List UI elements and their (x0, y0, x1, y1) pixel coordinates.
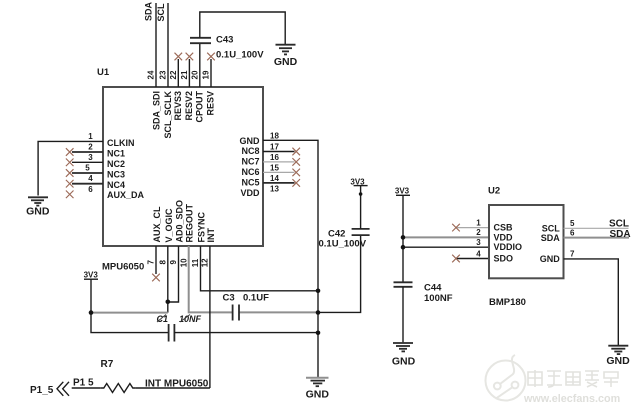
svg-text:2: 2 (476, 228, 481, 237)
wire pin4 NC4 stub (72, 183, 103, 185)
resistor R7 (100, 384, 135, 393)
junction dot C1 rail (316, 331, 321, 336)
wire C3 left rail (239, 311, 318, 313)
svg-text:INT: INT (206, 228, 216, 243)
svg-text:INT MPU6050: INT MPU6050 (145, 378, 209, 389)
svg-text:17: 17 (270, 143, 279, 152)
wire pin22 stub (177, 59, 179, 87)
svg-text:14: 14 (270, 174, 279, 183)
svg-text:MPU6050: MPU6050 (102, 262, 144, 273)
wire C1 right to rail (174, 332, 318, 334)
svg-text:3V3: 3V3 (84, 271, 99, 280)
svg-text:24: 24 (147, 70, 156, 79)
wire SCL out (564, 227, 629, 229)
svg-text:16: 16 (270, 153, 279, 162)
svg-text:AD0_SDO: AD0_SDO (175, 200, 185, 243)
wire C43 top to GND (200, 12, 285, 44)
no-connect X pin4 (66, 180, 74, 188)
svg-text:P1_5: P1_5 (30, 385, 54, 396)
svg-text:18: 18 (270, 131, 279, 140)
svg-text:22: 22 (169, 70, 178, 79)
svg-text:SDA: SDA (610, 229, 631, 240)
no-connect X pin16 (292, 158, 300, 166)
ground GND below C44 (392, 343, 416, 368)
svg-text:0.1U_100V: 0.1U_100V (319, 238, 367, 249)
wire pin16 stub (263, 161, 295, 163)
wire pin18 GND to ground rail (263, 140, 318, 377)
ground GND left (26, 197, 50, 217)
port P1_5 (30, 382, 69, 396)
capacitor C43 (190, 37, 211, 39)
svg-text:U1: U1 (97, 67, 110, 78)
svg-text:RESV2: RESV2 (184, 91, 194, 121)
wire pin2 NC1 stub (72, 151, 103, 153)
wire pin24 SDA (155, 3, 157, 87)
svg-text:3: 3 (88, 153, 93, 162)
svg-text:SDA: SDA (541, 233, 561, 243)
svg-text:7: 7 (147, 260, 156, 265)
svg-text:www.elecfans.com: www.elecfans.com (523, 393, 620, 405)
svg-text:VDD: VDD (494, 232, 514, 242)
svg-text:P1 5: P1 5 (73, 377, 94, 388)
svg-text:NC3: NC3 (107, 170, 125, 180)
svg-text:GND: GND (274, 56, 298, 68)
ground GND bottom middle (306, 378, 330, 401)
svg-text:NC7: NC7 (241, 157, 259, 167)
no-connect X pin17 (292, 148, 300, 156)
wire pin23 SCL (167, 3, 169, 87)
no-connect X pin3 (66, 159, 74, 167)
svg-text:VDDIO: VDDIO (494, 242, 523, 252)
svg-text:20: 20 (191, 70, 200, 79)
svg-text:11: 11 (191, 258, 200, 267)
svg-text:NC8: NC8 (241, 146, 259, 156)
wire C42 top to 3V3 (360, 186, 362, 229)
svg-text:V_OGIC: V_OGIC (164, 208, 174, 243)
svg-text:R7: R7 (101, 359, 114, 370)
svg-text:0.1UF: 0.1UF (243, 293, 269, 304)
svg-text:SDA_SDI: SDA_SDI (152, 91, 162, 130)
svg-text:SDA: SDA (144, 1, 154, 21)
junction dot C3 rail (316, 310, 321, 315)
svg-text:SCL: SCL (542, 223, 561, 233)
watermark logo circle (486, 355, 526, 401)
svg-text:C43: C43 (216, 35, 233, 46)
wire R7 to INT (135, 387, 210, 389)
junction dot pin8 pin9 tie (166, 300, 171, 305)
wire pin15 stub (263, 171, 295, 173)
wire pin17 stub (263, 151, 295, 153)
svg-text:SDO: SDO (494, 253, 514, 263)
no-connect X pin5 (66, 169, 74, 177)
svg-text:NC4: NC4 (107, 180, 125, 190)
svg-text:C1: C1 (157, 314, 169, 324)
svg-text:9: 9 (169, 260, 178, 265)
svg-text:NC1: NC1 (107, 149, 125, 159)
svg-text:7: 7 (570, 250, 575, 259)
junction dot FSYNC rail (316, 289, 321, 294)
svg-text:3: 3 (476, 238, 481, 247)
ground GND top right (274, 45, 298, 68)
svg-text:12: 12 (201, 258, 210, 267)
svg-text:NC5: NC5 (241, 178, 259, 188)
junction dot 3V3 left (89, 310, 94, 315)
svg-text:2: 2 (88, 143, 93, 152)
ground GND right (606, 346, 630, 367)
junction dot VDDIO (401, 245, 406, 250)
svg-text:SCL: SCL (156, 3, 166, 22)
power port 3V3 right (395, 186, 410, 195)
no-connect X pin7 (152, 274, 160, 282)
IC U2 BMP180 body (489, 205, 564, 278)
no-connect X pin21 (186, 53, 194, 61)
svg-text:BMP180: BMP180 (489, 297, 526, 308)
svg-text:8: 8 (159, 260, 168, 265)
no-connect X SDO (452, 255, 460, 263)
svg-text:REGOUT: REGOUT (185, 203, 195, 242)
svg-text:4: 4 (476, 249, 481, 258)
svg-text:GND: GND (606, 355, 630, 367)
svg-text:CSB: CSB (494, 223, 514, 233)
wire CSB stub (457, 227, 490, 229)
wire C44 to ground (402, 287, 404, 343)
wire port to R7 (72, 387, 101, 389)
wire rail to C42 (318, 235, 361, 312)
svg-text:NC6: NC6 (241, 167, 259, 177)
watermark chinese text (528, 370, 618, 387)
svg-text:VDD: VDD (240, 188, 260, 198)
svg-text:GND: GND (26, 206, 50, 218)
power port 3V3 left (84, 271, 99, 313)
svg-text:AUX_CL: AUX_CL (152, 206, 162, 243)
no-connect X pin22 (175, 53, 183, 61)
wire VDD to U2 (403, 236, 489, 238)
wire pin10 REGOUT down (189, 246, 233, 312)
svg-text:5: 5 (570, 219, 575, 228)
svg-text:15: 15 (270, 163, 279, 172)
svg-text:21: 21 (180, 70, 189, 79)
wire pin19 stub (210, 59, 212, 87)
wire pin20 CPOUT to C43 (199, 43, 201, 87)
junction dot VDD (401, 235, 406, 240)
no-connect X CSB (452, 224, 460, 232)
svg-text:6: 6 (570, 228, 575, 237)
wire pin9 AD0_SDO down (168, 246, 179, 302)
strike marks over C1 text (157, 315, 190, 323)
svg-text:1: 1 (476, 218, 481, 227)
wire U2 GND to ground (564, 259, 619, 345)
wire pin21 stub (188, 59, 190, 87)
wire SDA out (564, 237, 630, 239)
svg-text:SCL_SCLK: SCL_SCLK (163, 91, 173, 139)
svg-text:U2: U2 (488, 186, 500, 197)
wire 3V3 down to C1 (91, 313, 169, 333)
svg-text:NC2: NC2 (107, 159, 125, 169)
capacitor C3 plates (232, 305, 234, 321)
svg-text:23: 23 (159, 70, 168, 79)
svg-text:10NF: 10NF (179, 314, 202, 324)
svg-text:4: 4 (88, 174, 93, 183)
wire pin5 NC3 stub (72, 172, 103, 174)
no-connect X pin15 (292, 169, 300, 177)
wire pin8 VLOGIC down (167, 246, 169, 313)
svg-text:6: 6 (88, 185, 93, 194)
wire 3V3 down to C44 (402, 195, 404, 282)
IC U1 MPU6050 body (103, 87, 263, 246)
svg-text:REVS3: REVS3 (173, 91, 183, 121)
svg-text:CLKIN: CLKIN (107, 138, 135, 148)
svg-text:CPOUT: CPOUT (194, 90, 204, 122)
svg-text:100NF: 100NF (424, 293, 453, 304)
no-connect X pin14 (292, 179, 300, 187)
wire SDO stub (457, 258, 490, 260)
svg-text:AUX_DA: AUX_DA (107, 190, 145, 200)
capacitor C42 plates (352, 228, 370, 230)
wire pin1 CLKIN to ground (38, 141, 103, 195)
svg-text:GND: GND (306, 389, 330, 401)
wire 3V3 rail to pin8 (91, 312, 168, 314)
svg-text:GND: GND (540, 254, 561, 264)
svg-text:19: 19 (202, 70, 211, 79)
svg-text:13: 13 (270, 184, 279, 193)
wire VDDIO to U2 (403, 246, 489, 248)
wire pin12 INT down (209, 246, 211, 388)
wire pin3 NC2 stub (72, 161, 103, 163)
svg-text:C3: C3 (223, 293, 235, 304)
wire pin11 FSYNC to rail (201, 246, 319, 291)
svg-text:RESV: RESV (206, 91, 216, 116)
wire pin7 AUX_CL stub (155, 246, 157, 274)
capacitor C1 plates (168, 324, 170, 342)
no-connect X pin2 (66, 148, 74, 156)
svg-text:0.1U_100V: 0.1U_100V (216, 50, 264, 61)
svg-text:5: 5 (85, 164, 90, 173)
svg-text:GND: GND (240, 136, 261, 146)
wire pin14 stub (263, 182, 295, 184)
power port 3V3 middle (350, 177, 367, 196)
svg-text:3V3: 3V3 (395, 186, 410, 195)
capacitor C44 plates (394, 281, 413, 283)
no-connect X pin19 (207, 53, 215, 61)
svg-text:C44: C44 (424, 282, 442, 293)
svg-text:10: 10 (179, 258, 188, 267)
no-connect X pin6 AUX_DA (66, 191, 74, 199)
svg-text:1: 1 (88, 132, 93, 141)
svg-text:GND: GND (392, 356, 416, 368)
